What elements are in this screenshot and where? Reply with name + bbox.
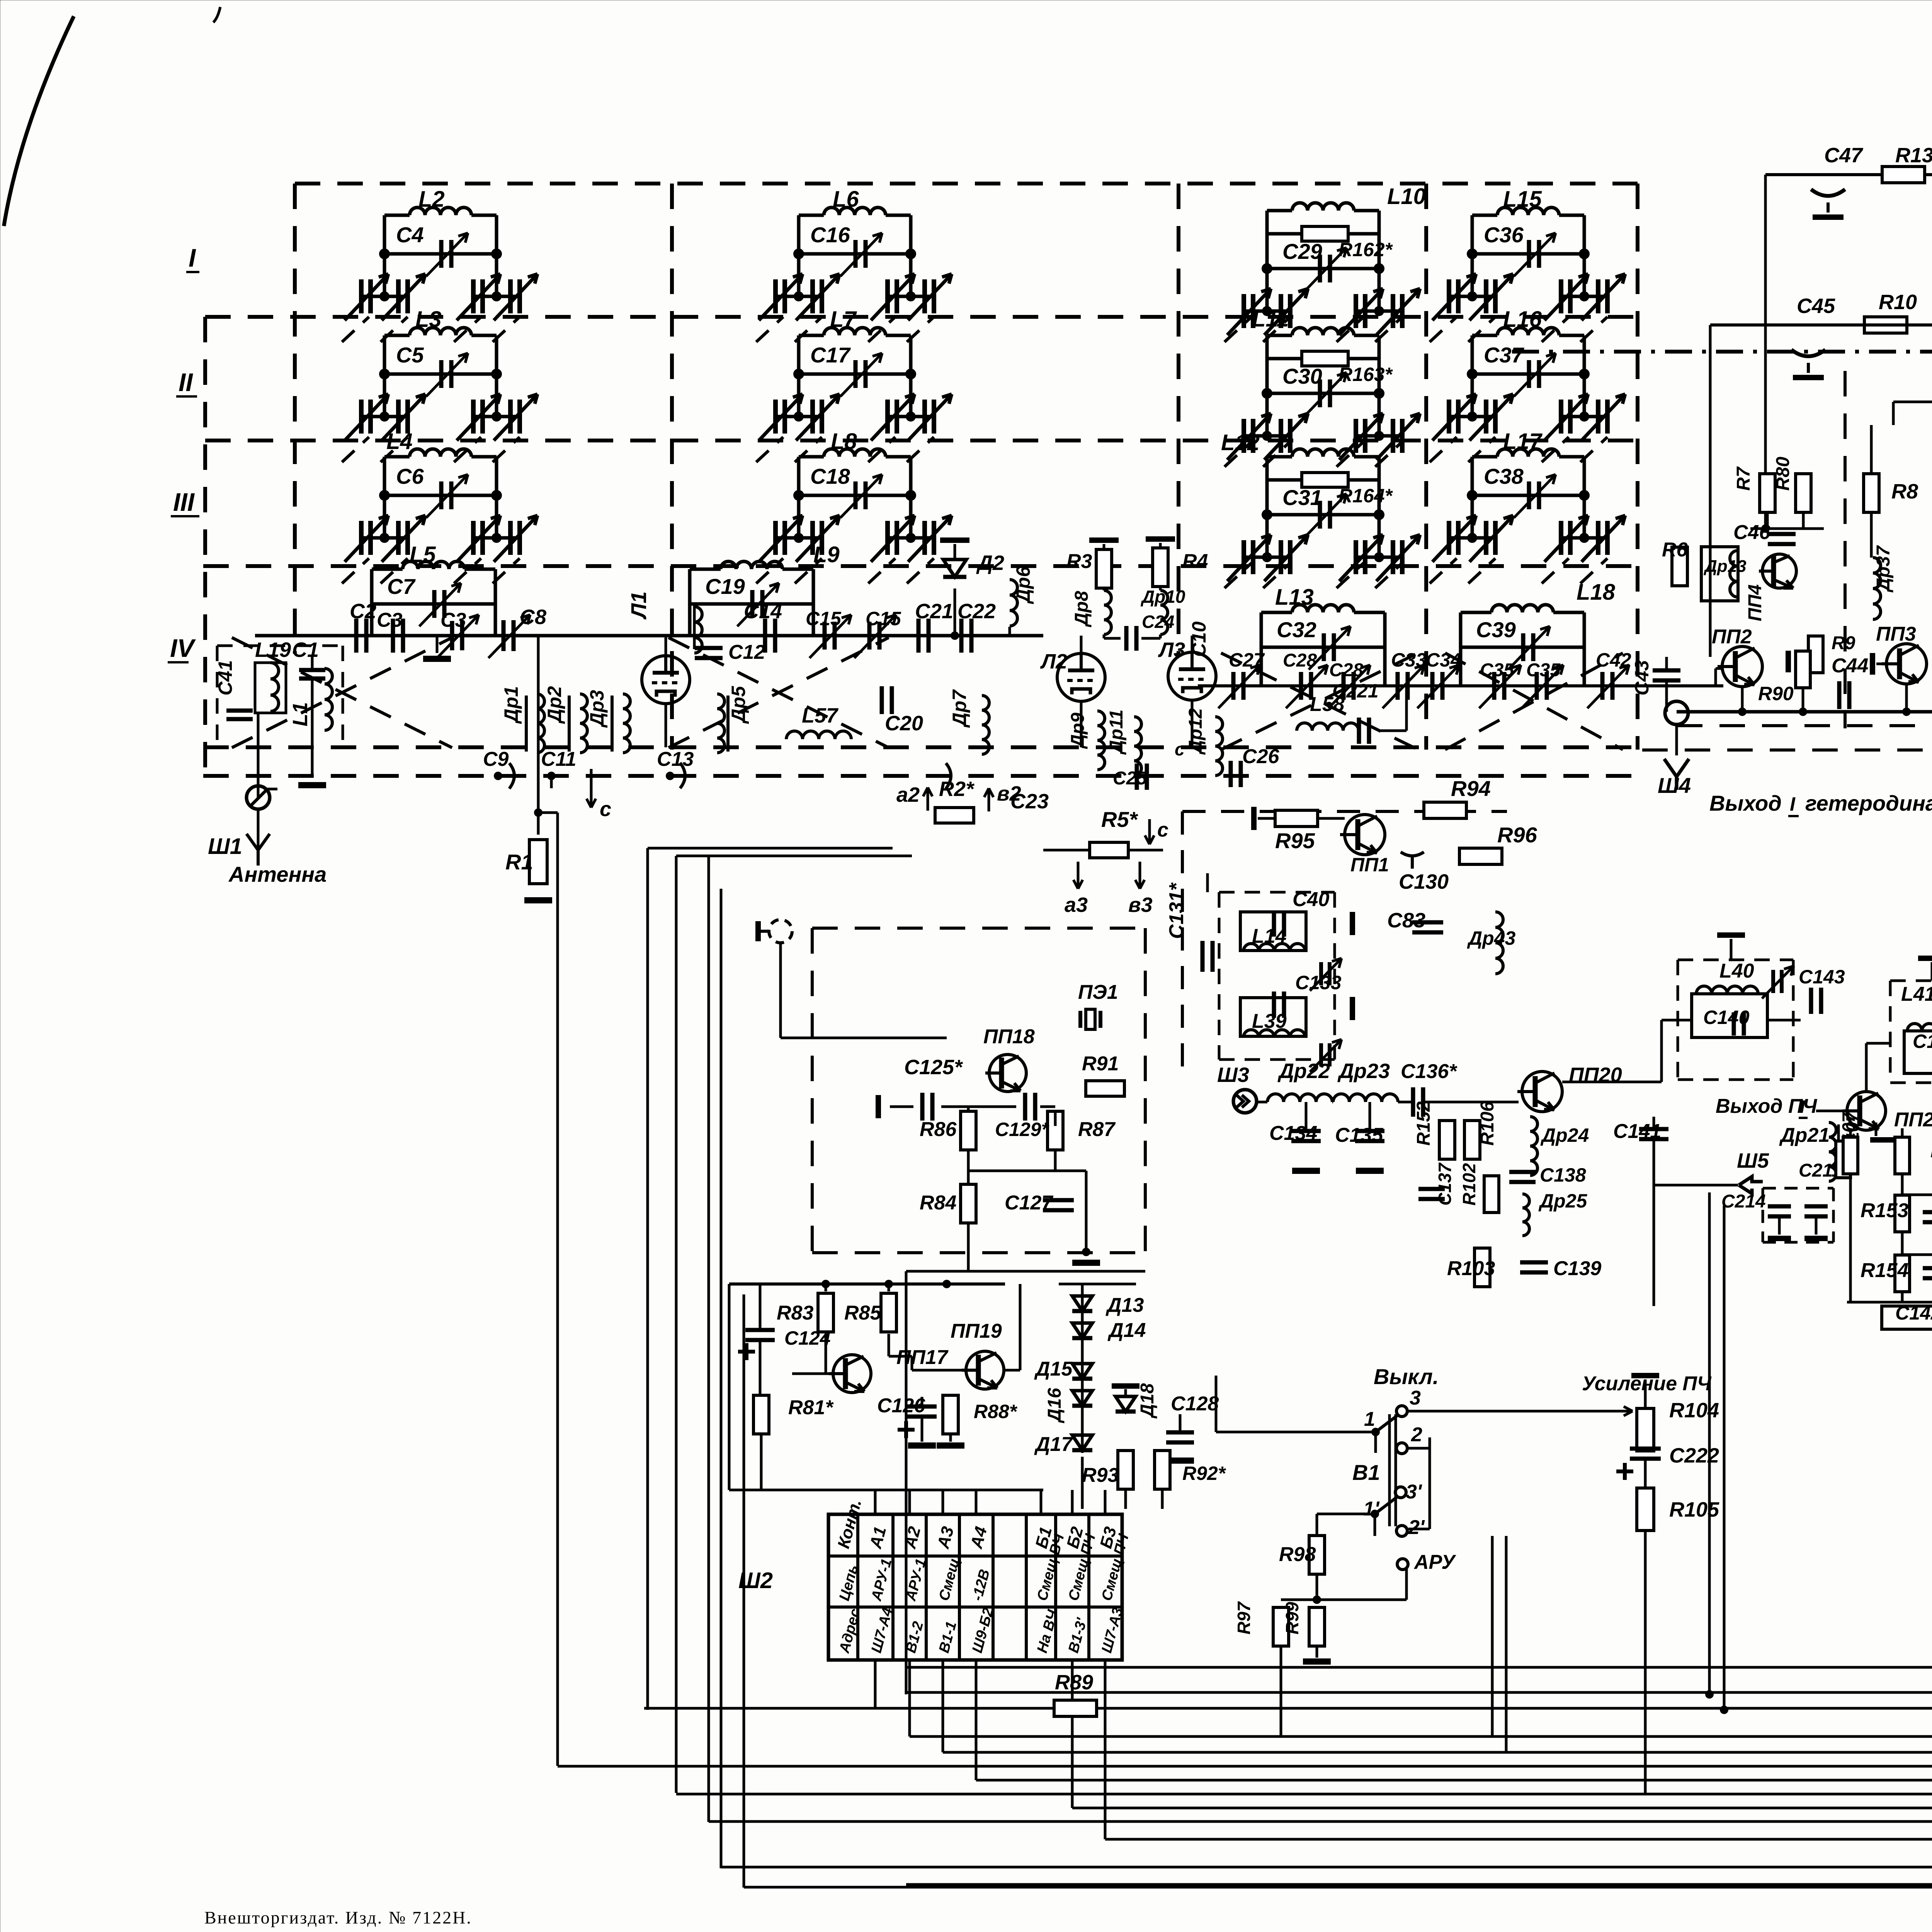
svg-text:C27: C27 (1229, 649, 1265, 671)
svg-text:C10: C10 (1188, 621, 1210, 657)
svg-text:C34: C34 (1426, 649, 1461, 671)
svg-text:ПП3: ПП3 (1876, 623, 1916, 645)
svg-text:IV: IV (170, 634, 196, 662)
svg-text:C45: C45 (1797, 294, 1835, 318)
svg-text:L15: L15 (1503, 187, 1542, 212)
svg-text:Др6: Др6 (1012, 566, 1034, 604)
svg-text:C39: C39 (1476, 617, 1516, 642)
svg-text:L40: L40 (1719, 960, 1754, 982)
svg-text:В1: В1 (1352, 1460, 1380, 1485)
svg-text:C35: C35 (1526, 660, 1561, 680)
svg-text:L1: L1 (289, 702, 312, 726)
svg-text:ПП1: ПП1 (1350, 854, 1389, 876)
svg-text:L57: L57 (802, 704, 839, 727)
svg-text:R80: R80 (1773, 457, 1793, 491)
svg-text:С125*: С125* (904, 1056, 963, 1079)
svg-text:C43: C43 (1631, 660, 1653, 696)
svg-text:Др24: Др24 (1540, 1124, 1589, 1146)
svg-text:Др7: Др7 (949, 689, 970, 728)
svg-text:C17: C17 (810, 343, 851, 367)
svg-text:R153: R153 (1861, 1199, 1908, 1222)
svg-text:C139: C139 (1553, 1257, 1601, 1280)
svg-text:C33: C33 (1391, 649, 1427, 671)
svg-text:C22: C22 (957, 600, 996, 623)
svg-text:Др2: Др2 (544, 686, 565, 724)
svg-text:Др37: Др37 (1873, 545, 1894, 593)
svg-text:C36: C36 (1484, 223, 1524, 247)
svg-text:R99: R99 (1282, 1602, 1302, 1634)
svg-text:C25: C25 (1113, 768, 1147, 789)
svg-text:C31: C31 (1282, 485, 1322, 510)
svg-text:ПП4: ПП4 (1745, 584, 1765, 621)
svg-text:R7: R7 (1733, 466, 1754, 491)
svg-text:Д18: Д18 (1137, 1383, 1158, 1419)
svg-text:Ш1: Ш1 (208, 834, 242, 859)
svg-text:C32: C32 (1277, 617, 1316, 642)
svg-text:L41: L41 (1901, 983, 1932, 1005)
svg-text:C4: C4 (396, 223, 424, 247)
svg-text:C23: C23 (1010, 790, 1049, 813)
svg-text:L17: L17 (1503, 429, 1543, 454)
svg-text:R102: R102 (1459, 1163, 1479, 1206)
svg-text:Внешторгиздат. Изд. № 7122Н: Внешторгиздат. Изд. № 7122Н. (204, 1908, 472, 1927)
svg-text:C143: C143 (1799, 966, 1845, 988)
svg-text:I: I (1800, 1097, 1805, 1117)
svg-text:2: 2 (1411, 1423, 1422, 1446)
svg-text:3': 3' (1406, 1481, 1422, 1503)
svg-text:R85: R85 (844, 1302, 881, 1324)
svg-text:С24: С24 (1142, 612, 1174, 632)
svg-text:R2*: R2* (939, 777, 975, 801)
svg-text:Др1: Др1 (500, 686, 522, 724)
svg-text:Л1: Л1 (626, 591, 651, 620)
svg-text:C214: C214 (1721, 1191, 1766, 1212)
svg-text:II: II (179, 368, 193, 396)
svg-text:Д15: Д15 (1034, 1358, 1073, 1380)
svg-text:R93: R93 (1082, 1464, 1119, 1486)
svg-text:C3: C3 (377, 609, 403, 631)
svg-text:C144: C144 (1913, 1031, 1932, 1052)
svg-text:L4: L4 (386, 429, 413, 454)
svg-text:а2: а2 (896, 783, 920, 806)
svg-text:с: с (1175, 739, 1185, 759)
svg-text:C28: C28 (1329, 660, 1363, 680)
svg-text:L6: L6 (833, 187, 859, 212)
svg-text:Ш3: Ш3 (1217, 1063, 1249, 1087)
svg-text:Др22: Др22 (1277, 1060, 1330, 1083)
svg-text:L3: L3 (415, 307, 442, 332)
svg-text:Д17: Д17 (1034, 1433, 1073, 1456)
svg-text:C6: C6 (396, 464, 424, 488)
svg-text:Антенна: Антенна (228, 862, 327, 886)
svg-text:R103: R103 (1447, 1257, 1495, 1280)
svg-text:C12: C12 (728, 641, 765, 663)
svg-text:III: III (173, 488, 195, 516)
svg-text:C221: C221 (1332, 680, 1379, 702)
svg-text:Д16: Д16 (1044, 1388, 1065, 1423)
svg-text:R5*: R5* (1101, 807, 1138, 832)
svg-text:Ш5: Ш5 (1737, 1149, 1769, 1172)
svg-text:1: 1 (1364, 1408, 1375, 1430)
svg-text:C15: C15 (866, 608, 901, 629)
svg-text:Др9: Др9 (1068, 713, 1088, 749)
svg-text:2': 2' (1408, 1516, 1425, 1539)
svg-text:Др3: Др3 (586, 690, 608, 728)
svg-text:L2: L2 (418, 187, 445, 212)
svg-text:C21: C21 (915, 600, 953, 623)
svg-text:R152: R152 (1413, 1101, 1434, 1146)
svg-text:C127: C127 (1005, 1192, 1053, 1214)
svg-text:R92*: R92* (1182, 1463, 1226, 1484)
svg-text:C47: C47 (1824, 144, 1864, 167)
svg-text:с: с (1157, 819, 1168, 841)
svg-text:R3: R3 (1066, 550, 1092, 573)
svg-text:C38: C38 (1484, 464, 1524, 488)
svg-text:Выкл.: Выкл. (1374, 1364, 1439, 1389)
svg-text:C134: C134 (1269, 1122, 1317, 1145)
svg-text:C26: C26 (1242, 745, 1279, 768)
svg-text:R81*: R81* (788, 1396, 834, 1419)
svg-text:L19: L19 (255, 638, 291, 662)
svg-text:C138: C138 (1540, 1164, 1586, 1186)
svg-text:R98: R98 (1279, 1543, 1316, 1566)
svg-text:C40: C40 (1293, 888, 1329, 911)
svg-text:C5: C5 (396, 343, 424, 367)
svg-text:R105: R105 (1669, 1498, 1719, 1521)
svg-text:C28: C28 (1283, 650, 1317, 671)
svg-text:Д14: Д14 (1107, 1319, 1146, 1342)
svg-text:C2: C2 (350, 600, 376, 623)
svg-text:C19: C19 (705, 574, 745, 599)
svg-text:Др12: Др12 (1185, 708, 1206, 755)
svg-text:R94: R94 (1451, 776, 1491, 801)
svg-text:ПП18: ПП18 (983, 1026, 1035, 1048)
svg-text:C135: C135 (1335, 1124, 1383, 1146)
svg-text:ПП19: ПП19 (951, 1320, 1002, 1342)
svg-text:C35: C35 (1480, 660, 1514, 680)
svg-text:R1: R1 (505, 850, 533, 874)
svg-text:R4: R4 (1182, 550, 1208, 573)
svg-text:R91: R91 (1082, 1053, 1119, 1075)
svg-text:3: 3 (1410, 1387, 1421, 1409)
svg-text:C42: C42 (1596, 649, 1631, 671)
svg-text:Др25: Др25 (1538, 1190, 1587, 1212)
svg-text:а3: а3 (1065, 893, 1088, 917)
svg-text:L9: L9 (813, 542, 840, 567)
svg-text:L11: L11 (1252, 306, 1289, 332)
svg-text:Др21: Др21 (1779, 1124, 1830, 1146)
svg-text:C131*: C131* (1165, 882, 1188, 939)
svg-text:L12: L12 (1221, 430, 1260, 455)
svg-text:R87: R87 (1078, 1118, 1116, 1141)
svg-text:C7: C7 (387, 574, 416, 599)
svg-text:ПП21: ПП21 (1894, 1109, 1932, 1131)
svg-text:R83: R83 (777, 1302, 813, 1324)
svg-text:C16: C16 (810, 223, 850, 247)
svg-text:Др10: Др10 (1140, 587, 1185, 607)
svg-text:R90: R90 (1758, 683, 1794, 704)
svg-text:Др8: Др8 (1071, 591, 1092, 628)
svg-text:C124: C124 (784, 1327, 831, 1349)
svg-text:Ш4: Ш4 (1658, 773, 1691, 798)
svg-text:I: I (189, 243, 196, 272)
svg-text:C29: C29 (1282, 239, 1322, 264)
svg-text:Л3: Л3 (1158, 638, 1185, 662)
svg-text:C83: C83 (1387, 909, 1425, 932)
svg-text:C9: C9 (483, 748, 509, 770)
svg-text:Л2: Л2 (1040, 650, 1067, 673)
svg-text:C15: C15 (806, 608, 842, 629)
svg-text:L8: L8 (831, 429, 857, 454)
svg-text:C46: C46 (1733, 521, 1770, 544)
svg-text:L13: L13 (1275, 585, 1314, 610)
svg-text:С222: С222 (1669, 1444, 1719, 1467)
svg-text:R154: R154 (1861, 1259, 1908, 1282)
svg-text:L16: L16 (1503, 307, 1542, 332)
svg-text:ПП17: ПП17 (896, 1346, 949, 1369)
svg-text:R84: R84 (920, 1192, 956, 1214)
svg-text:Др5: Др5 (728, 685, 749, 724)
svg-text:C30: C30 (1282, 364, 1322, 388)
svg-text:R9: R9 (1832, 633, 1855, 653)
svg-text:Д2: Д2 (976, 551, 1004, 575)
svg-text:R8: R8 (1891, 480, 1918, 503)
svg-text:ПЭ1: ПЭ1 (1078, 981, 1118, 1003)
svg-text:R10: R10 (1879, 291, 1917, 314)
svg-text:Выход: Выход (1709, 791, 1782, 815)
svg-text:C11: C11 (541, 748, 577, 770)
svg-text:R89: R89 (1055, 1671, 1093, 1694)
svg-text:Др23: Др23 (1337, 1060, 1390, 1083)
svg-text:C20: C20 (885, 712, 923, 735)
svg-text:C44: C44 (1832, 655, 1868, 677)
svg-text:C130: C130 (1399, 870, 1449, 893)
svg-text:C136*: C136* (1401, 1060, 1458, 1083)
svg-text:R88*: R88* (974, 1401, 1018, 1422)
svg-text:C13: C13 (657, 748, 694, 770)
svg-text:R109: R109 (1930, 1139, 1932, 1162)
svg-text:C1: C1 (292, 638, 319, 662)
svg-text:R104: R104 (1669, 1399, 1719, 1422)
svg-text:R95: R95 (1275, 828, 1315, 853)
svg-text:I: I (1790, 793, 1796, 815)
svg-text:R96: R96 (1497, 823, 1537, 847)
svg-text:Др11: Др11 (1106, 709, 1127, 755)
svg-text:R13: R13 (1895, 144, 1932, 167)
svg-text:C14: C14 (744, 600, 782, 623)
svg-text:L10: L10 (1387, 184, 1426, 209)
svg-text:L5: L5 (410, 542, 436, 567)
svg-text:в3: в3 (1128, 893, 1153, 917)
svg-text:C128: C128 (1171, 1393, 1219, 1415)
svg-text:C3: C3 (440, 609, 466, 631)
svg-text:С41: С41 (214, 660, 236, 696)
svg-text:Др13: Др13 (1703, 557, 1747, 576)
svg-text:Д13: Д13 (1105, 1294, 1144, 1316)
svg-text:гетеродина: гетеродина (1805, 791, 1932, 815)
svg-text:C8: C8 (520, 605, 546, 629)
svg-text:ПП2: ПП2 (1712, 626, 1752, 648)
svg-text:с: с (600, 798, 611, 821)
svg-text:L18: L18 (1577, 580, 1616, 605)
svg-text:R86: R86 (920, 1118, 957, 1141)
svg-text:АРУ: АРУ (1413, 1551, 1456, 1573)
svg-text:C129*: C129* (995, 1119, 1050, 1140)
svg-text:C37: C37 (1484, 343, 1525, 367)
svg-text:Др43: Др43 (1467, 927, 1515, 949)
svg-text:C18: C18 (810, 464, 850, 488)
svg-text:R6: R6 (1662, 539, 1688, 561)
svg-text:L7: L7 (830, 307, 857, 332)
svg-text:R97: R97 (1234, 1601, 1254, 1634)
